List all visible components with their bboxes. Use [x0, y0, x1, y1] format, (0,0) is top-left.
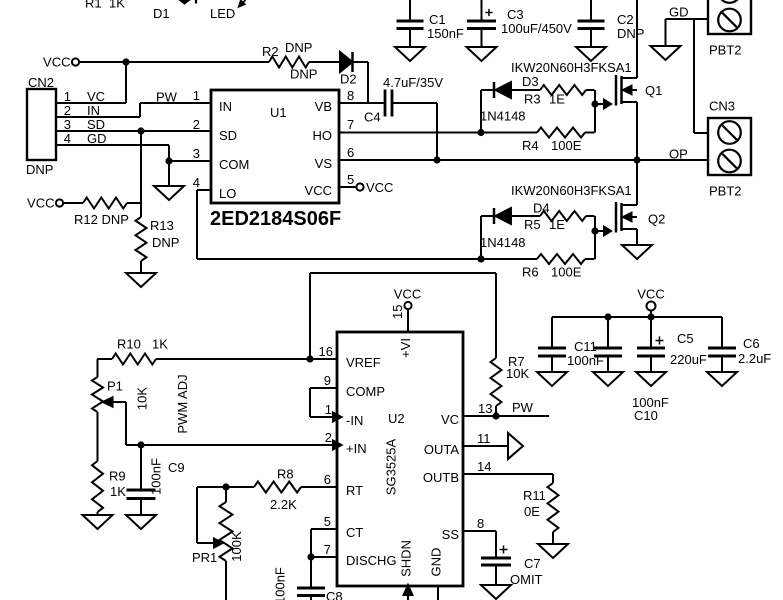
resistor R6 100E	[522, 254, 595, 280]
pin 7 of U1	[347, 117, 354, 132]
svg-text:+IN: +IN	[346, 441, 367, 456]
wire R10 down to P1	[97, 359, 99, 377]
wire R2 to D2	[309, 61, 340, 63]
ground below R13	[126, 261, 156, 287]
ground below C11	[537, 372, 567, 386]
wire D4 branch left vertical	[481, 216, 494, 259]
wire VC pin13 (PW)	[463, 400, 549, 416]
svg-text:100K: 100K	[229, 531, 244, 562]
svg-text:16: 16	[319, 344, 333, 359]
ground at COM	[154, 161, 184, 200]
svg-text:PWM ADJ: PWM ADJ	[175, 374, 190, 433]
wire DISCHG pin7	[311, 556, 337, 558]
capacitor C11 100nF	[538, 317, 604, 372]
node GD label	[669, 5, 689, 20]
connector CN2	[26, 75, 56, 177]
svg-text:R1: R1	[85, 0, 102, 11]
pin 8 of U1	[347, 88, 354, 103]
junction HO/D3 branch	[477, 129, 484, 136]
svg-text:R5: R5	[524, 217, 541, 232]
svg-text:OP: OP	[669, 147, 688, 162]
svg-text:15: 15	[390, 305, 405, 319]
op-amp U1 2ED2184S06F body	[210, 90, 341, 230]
svg-text:LO: LO	[219, 186, 236, 201]
junction LO/D4 branch	[477, 255, 484, 262]
svg-text:R11: R11	[523, 488, 546, 503]
svg-text:OUTB: OUTB	[423, 470, 459, 485]
svg-text:1K: 1K	[152, 337, 168, 352]
svg-text:VCC: VCC	[366, 180, 393, 195]
resistor R13 DNP	[136, 217, 180, 261]
capacitor C6 2.2uF	[708, 317, 771, 372]
svg-text:DNP: DNP	[285, 40, 312, 55]
wire OUTB pin14 to R11	[463, 474, 553, 483]
svg-text:VCC: VCC	[394, 287, 421, 302]
wire GD to terminal	[666, 18, 709, 20]
svg-text:VREF: VREF	[346, 355, 381, 370]
capacitor C3 100uF/450V	[467, 0, 572, 47]
svg-text:6: 6	[347, 145, 354, 160]
svg-text:PBT2: PBT2	[709, 184, 742, 199]
svg-text:SD: SD	[219, 128, 237, 143]
svg-text:COM: COM	[219, 157, 249, 172]
transistor Q2 part number label	[511, 183, 632, 198]
connector CN3 PBT2	[708, 99, 751, 199]
svg-text:R3: R3	[524, 92, 541, 107]
svg-text:100nF: 100nF	[149, 458, 164, 495]
node PWM ADJ label	[175, 374, 190, 433]
junction C4/VS	[433, 156, 440, 163]
svg-text:R4: R4	[522, 138, 539, 153]
pin 11 of U2	[477, 431, 491, 446]
svg-text:3: 3	[64, 117, 71, 132]
pin 16 of U2	[319, 344, 333, 359]
junction +IN/C9	[137, 441, 144, 448]
connector PBT2 top block	[708, 0, 751, 58]
svg-text:7: 7	[347, 117, 354, 132]
resistor R12 DNP	[64, 198, 142, 228]
wire HO pin7 to R4	[339, 132, 537, 134]
pin 15 of U2	[390, 305, 405, 319]
svg-text:IKW20N60H3FKSA1: IKW20N60H3FKSA1	[511, 183, 632, 198]
wire LO pin4 to lower gate net	[197, 190, 537, 259]
svg-text:9: 9	[324, 373, 331, 388]
svg-text:6: 6	[324, 472, 331, 487]
svg-text:11: 11	[477, 431, 491, 446]
svg-text:C1: C1	[429, 12, 446, 27]
wire Q1 gate node vertical	[594, 90, 596, 133]
pin 7 of U2	[324, 542, 331, 557]
resistor R10 1K	[97, 337, 168, 365]
svg-text:100E: 100E	[551, 265, 582, 280]
resistor R8 2.2K	[197, 467, 337, 513]
wire OUTA pin11	[463, 445, 508, 447]
svg-text:2ED2184S06F: 2ED2184S06F	[210, 208, 341, 230]
junction rail/C10	[604, 313, 611, 320]
svg-text:LED: LED	[210, 6, 235, 21]
junction Q2 gate	[591, 227, 598, 234]
svg-text:GD: GD	[669, 5, 689, 20]
svg-text:R12 DNP: R12 DNP	[74, 212, 129, 227]
svg-text:D1: D1	[153, 6, 170, 21]
svg-text:5: 5	[324, 514, 331, 529]
node VCC terminal	[43, 55, 79, 70]
svg-text:DNP: DNP	[26, 162, 53, 177]
pin 2 of U1	[193, 117, 200, 132]
wire SD vertical to R13	[140, 131, 142, 217]
svg-text:CN3: CN3	[709, 99, 735, 114]
pin 5 VCC of U1	[339, 180, 393, 195]
junction VREF	[306, 355, 313, 362]
svg-text:PW: PW	[156, 90, 178, 105]
ground below C2	[576, 47, 606, 61]
svg-text:IN: IN	[219, 99, 232, 114]
svg-text:14: 14	[477, 459, 491, 474]
ground below R11	[538, 532, 568, 558]
svg-text:2: 2	[193, 117, 200, 132]
svg-text:IKW20N60H3FKSA1: IKW20N60H3FKSA1	[511, 60, 632, 75]
node OP label	[669, 147, 688, 162]
svg-text:VC: VC	[441, 412, 459, 427]
svg-text:2.2uF: 2.2uF	[738, 351, 771, 366]
resistor R3 1E	[511, 85, 595, 107]
pin GND of U2 below	[437, 586, 439, 600]
svg-text:U1: U1	[270, 105, 287, 120]
svg-text:GND: GND	[429, 548, 444, 577]
svg-text:C3: C3	[507, 7, 524, 22]
wire VCC rail to R2	[80, 61, 269, 63]
ground below Q2	[622, 245, 652, 259]
pin 3 of U1	[193, 146, 200, 161]
wire D3 branch left vertical	[481, 90, 494, 133]
ground below C5	[636, 372, 666, 386]
svg-text:SD: SD	[87, 117, 105, 132]
svg-text:3: 3	[193, 146, 200, 161]
node VCC terminal left-mid	[27, 196, 63, 211]
svg-text:C6: C6	[743, 336, 760, 351]
pin 1 of U1	[193, 88, 200, 103]
wire gate lead Q2	[595, 227, 611, 236]
svg-text:VCC: VCC	[43, 55, 70, 70]
node VCC terminal above U2	[394, 287, 421, 310]
svg-text:PW: PW	[512, 400, 534, 415]
svg-text:CN2: CN2	[28, 75, 54, 90]
wire VREF up and over to R7	[310, 273, 496, 359]
ground below R9	[83, 512, 113, 529]
capacitor C10 100nF	[594, 317, 669, 423]
wire Q2 gate node vertical	[594, 216, 596, 259]
svg-text:DNP: DNP	[617, 26, 644, 41]
svg-text:VC: VC	[87, 89, 105, 104]
junction VCC/VC	[122, 58, 129, 65]
svg-text:1K: 1K	[110, 484, 126, 499]
svg-text:Q2: Q2	[648, 212, 665, 227]
svg-text:COMP: COMP	[346, 384, 385, 399]
wire VB pin8 to C4	[339, 102, 385, 104]
diode D3 1N4148	[480, 74, 539, 124]
svg-text:D3: D3	[522, 74, 539, 89]
wire GD to COM	[169, 145, 211, 161]
ground on GD	[651, 19, 681, 60]
node PW label	[156, 90, 178, 105]
wire VCC bank rail	[552, 311, 722, 318]
potentiometer P1 10K	[92, 377, 150, 412]
svg-text:1: 1	[193, 88, 200, 103]
capacitor C4 4.7uF/35V	[364, 75, 443, 125]
wire GD down to CN3 pin1	[694, 19, 708, 133]
svg-text:PR1: PR1	[192, 550, 217, 565]
ground below C7	[481, 585, 511, 599]
svg-text:DNP: DNP	[290, 67, 317, 82]
svg-text:R8: R8	[277, 467, 294, 482]
pin 9 of U2	[324, 373, 331, 388]
svg-text:C4: C4	[364, 110, 381, 125]
svg-text:4.7uF/35V: 4.7uF/35V	[383, 75, 443, 90]
svg-text:C7: C7	[524, 556, 541, 571]
svg-text:2.2K: 2.2K	[270, 497, 297, 512]
svg-text:4: 4	[193, 175, 200, 190]
svg-text:IN: IN	[87, 103, 100, 118]
resistor R7 10K	[491, 354, 530, 416]
svg-text:10K: 10K	[135, 387, 150, 410]
capacitor C1 150nF	[397, 0, 464, 47]
wire VCC down to CN2 pin1 VC	[125, 62, 127, 103]
diode D4 1N4148	[480, 201, 550, 251]
diode D1 (cut off at top)	[153, 0, 196, 21]
svg-text:U2: U2	[388, 411, 405, 426]
wire C4 to VS node	[392, 103, 437, 160]
svg-text:4: 4	[64, 131, 71, 146]
node VCC terminal of filter bank	[637, 287, 664, 311]
svg-text:P1: P1	[107, 379, 123, 394]
capacitor C5 220uF	[637, 317, 707, 372]
ground below C1	[395, 47, 425, 61]
svg-text:VS: VS	[315, 156, 333, 171]
svg-text:8: 8	[347, 88, 354, 103]
resistor R2	[262, 40, 317, 82]
svg-text:C11: C11	[574, 339, 597, 354]
arrow into -IN pin	[333, 413, 342, 422]
pin 2 of U2	[325, 430, 332, 445]
junction R7/VC	[492, 412, 499, 419]
svg-text:5: 5	[347, 172, 354, 187]
svg-text:-IN: -IN	[346, 413, 363, 428]
junction rail/C5	[647, 313, 654, 320]
pin 6 of U1	[347, 145, 354, 160]
ground below C3	[467, 47, 497, 61]
svg-text:D2: D2	[340, 72, 357, 87]
wire VREF pin16 line	[156, 358, 337, 360]
junction Q1 gate	[591, 100, 598, 107]
capacitor C8 100nF	[273, 557, 343, 600]
transistor Q1	[616, 0, 662, 160]
svg-text:1N4148: 1N4148	[480, 109, 526, 124]
junction DISCHG/C8	[307, 553, 314, 560]
svg-text:+VI: +VI	[398, 338, 413, 358]
capacitor C7 OMIT	[481, 546, 543, 588]
svg-text:PBT2: PBT2	[709, 43, 742, 58]
transistor Q1 part number label	[511, 60, 632, 75]
svg-text:220uF: 220uF	[670, 352, 707, 367]
ground below C9	[126, 515, 156, 529]
wire D2 to VB	[353, 62, 369, 103]
resistor R9 1K	[92, 461, 126, 512]
svg-text:CT: CT	[346, 525, 363, 540]
svg-text:100nF: 100nF	[273, 567, 288, 600]
ground below C6	[707, 372, 737, 386]
svg-text:HO: HO	[313, 128, 333, 143]
pin 1 of U2	[325, 402, 332, 417]
resistor R5 1E	[511, 211, 595, 232]
pin 2 IN of CN2	[56, 103, 140, 118]
svg-text:SG3525A: SG3525A	[384, 438, 399, 495]
svg-text:VCC: VCC	[637, 287, 664, 302]
svg-text:1K: 1K	[109, 0, 125, 11]
svg-text:SS: SS	[442, 527, 460, 542]
svg-text:VB: VB	[315, 99, 332, 114]
LED D1 indicator (cut off at top)	[210, 0, 246, 21]
svg-text:OMIT: OMIT	[510, 572, 543, 587]
pin 4 GD of CN2	[56, 131, 169, 146]
svg-text:VCC: VCC	[305, 183, 332, 198]
svg-text:100uF/450V: 100uF/450V	[501, 21, 572, 36]
transistor Q2	[616, 160, 665, 245]
junction COM/ground	[165, 157, 172, 164]
svg-text:7: 7	[324, 542, 331, 557]
svg-text:150nF: 150nF	[427, 26, 464, 41]
svg-text:1E: 1E	[549, 92, 565, 107]
wire gate lead Q1	[595, 100, 611, 109]
wire SS pin8 to C7	[463, 531, 496, 558]
svg-text:R9: R9	[109, 469, 126, 484]
svg-text:C8: C8	[326, 589, 343, 600]
svg-text:1: 1	[325, 402, 332, 417]
wire CT pin5	[311, 529, 337, 557]
svg-text:OUTA: OUTA	[424, 442, 459, 457]
svg-text:8: 8	[477, 516, 484, 531]
junction SD/R13	[137, 127, 144, 134]
svg-text:0E: 0E	[524, 504, 540, 519]
wire P1 to R9	[97, 412, 99, 461]
resistor R1 label (cut off at top)	[85, 0, 125, 11]
svg-text:C10: C10	[634, 408, 658, 423]
svg-text:10K: 10K	[506, 366, 529, 381]
pin 14 of U2	[477, 459, 491, 474]
svg-text:R6: R6	[522, 265, 539, 280]
svg-text:RT: RT	[346, 483, 363, 498]
svg-text:Q1: Q1	[645, 83, 662, 98]
capacitor C2 DNP	[578, 0, 645, 47]
resistor R11 0E	[523, 483, 559, 532]
svg-text:R10: R10	[117, 337, 141, 352]
potentiometer PR1 100K	[192, 487, 244, 600]
pin 5 of U2	[324, 514, 331, 529]
junction VS/Q1 source	[633, 156, 640, 163]
ground below C10	[593, 372, 623, 386]
pin 6 of U2	[324, 472, 331, 487]
controller U2 SG3525A body	[337, 332, 463, 586]
svg-text:1N4148: 1N4148	[480, 235, 526, 250]
svg-text:GD: GD	[87, 131, 107, 146]
svg-text:R13: R13	[150, 218, 174, 233]
svg-text:VCC: VCC	[27, 196, 54, 211]
svg-text:DISCHG: DISCHG	[346, 553, 397, 568]
svg-text:13: 13	[478, 401, 492, 416]
pin 5 of U1	[347, 172, 354, 187]
svg-text:1: 1	[64, 89, 71, 104]
svg-text:100E: 100E	[551, 138, 582, 153]
svg-text:C9: C9	[168, 460, 185, 475]
wire COMP to -IN loop	[310, 388, 337, 417]
arrow into +IN pin	[333, 441, 342, 450]
svg-text:2: 2	[64, 103, 71, 118]
junction R8/PR1	[222, 483, 229, 490]
wire P1 wiper to +IN	[126, 402, 337, 445]
svg-text:DNP: DNP	[152, 235, 179, 250]
svg-text:R2: R2	[262, 44, 279, 59]
wire VS pin6 to OP	[339, 159, 708, 161]
pin 4 of U1	[193, 175, 200, 190]
wire VCC to +VI pin15	[407, 310, 409, 332]
pin 13 of U2	[478, 401, 492, 416]
wire R8 left down to PR1 wiper	[197, 487, 214, 543]
svg-text:C5: C5	[677, 331, 694, 346]
pin 3 SD of CN2	[56, 117, 211, 132]
pin 1 VC of CN2	[56, 89, 126, 104]
wire IN net up to U1 pin1 (PW)	[140, 103, 211, 117]
svg-text:C2: C2	[617, 12, 634, 27]
capacitor C9 100nF	[127, 445, 185, 515]
resistor R4 100E	[522, 128, 595, 154]
svg-text:1E: 1E	[549, 217, 565, 232]
svg-text:SHDN: SHDN	[399, 540, 414, 577]
pin 8 of U2	[477, 516, 484, 531]
pin SHDN of U2 below	[404, 585, 413, 600]
node OUTA output arrow	[508, 433, 523, 459]
diode D2	[340, 52, 357, 87]
svg-text:2: 2	[325, 430, 332, 445]
